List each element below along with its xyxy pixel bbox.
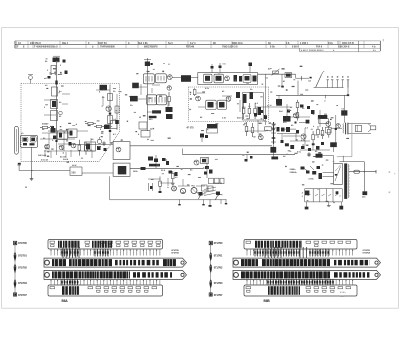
connector bar B6B-mid2 solder fill <box>241 271 245 278</box>
svg-text:4 09b: 4 09b <box>308 177 314 180</box>
svg-text:b0 4: b0 4 <box>72 164 77 167</box>
svg-text:4F 078: 4F 078 <box>186 127 194 130</box>
lamp LP1 <box>172 186 177 191</box>
IF stage parts <box>139 122 147 129</box>
transistor TS5 <box>167 75 172 80</box>
connector strip B6A-bottom outline <box>48 285 163 296</box>
pin ticks below B6A-top <box>50 250 52 256</box>
svg-text:071/707: 071/707 <box>18 293 27 297</box>
feedback marks <box>285 143 289 146</box>
bundle wires right <box>264 247 266 258</box>
transistor TS4 <box>116 147 121 152</box>
aerial socket <box>15 126 19 154</box>
svg-text:071/700: 071/700 <box>18 241 27 245</box>
capacitor C1 <box>53 58 60 63</box>
svg-text:F 4/900408400030b 8: F 4/900408400030b 8 <box>34 46 58 49</box>
tone stage upper transistor <box>194 160 199 165</box>
title block separators <box>27 41 29 48</box>
board tag 071/702 <box>14 265 16 273</box>
wire af drop <box>272 144 274 158</box>
connector strip B6B-bottom contacts <box>246 287 251 289</box>
wire af right <box>283 128 296 130</box>
wire mesh audio <box>255 106 290 108</box>
svg-text:09804b: 09804b <box>290 171 298 174</box>
resistor R22 (arrow) <box>273 71 279 74</box>
wire bottom rail <box>110 199 227 201</box>
voltage selector table <box>305 188 343 190</box>
agc cap <box>97 146 101 150</box>
af blobs row b <box>287 110 290 113</box>
capacitor C9 <box>105 125 110 130</box>
board tag 071/707 <box>14 293 17 296</box>
wire rf rail <box>74 143 113 145</box>
svg-text:0-2 4: 0-2 4 <box>190 42 196 45</box>
IF transformer S1 <box>143 74 154 84</box>
wire IF chain <box>146 58 148 131</box>
wire AGC bus <box>183 154 296 156</box>
junction dot <box>32 170 33 171</box>
switch wafer comb <box>327 79 329 81</box>
bar label dark <box>149 164 160 167</box>
mains transformer T3 <box>334 163 343 184</box>
IF transformer S2 <box>155 74 166 83</box>
board tag 071/701 <box>210 253 212 261</box>
coil L2 trimmer <box>51 111 58 121</box>
selector blobs <box>305 191 310 196</box>
svg-text:4 0b 44: 4 0b 44 <box>41 159 49 162</box>
emitter column <box>328 126 330 129</box>
crystal X1 <box>118 166 127 174</box>
cap C33 <box>330 142 337 147</box>
svg-text:071/705: 071/705 <box>171 250 179 252</box>
wire bus y95 <box>276 94 348 96</box>
ferrite unit marks <box>23 143 27 145</box>
lamination line <box>348 164 350 198</box>
svg-text:071/701: 071/701 <box>18 254 27 258</box>
resistor R5 <box>78 140 80 145</box>
connector bar B6B-mid1 mounting hole R <box>375 261 378 264</box>
svg-text:071/700: 071/700 <box>214 241 223 245</box>
resistor R20 <box>194 88 196 89</box>
svg-text:071/704: 071/704 <box>363 252 371 255</box>
osc coil A <box>204 74 213 83</box>
wire det drop <box>265 74 267 125</box>
svg-text:071/701: 071/701 <box>214 254 223 258</box>
branch x117 <box>116 100 118 130</box>
wire mesh tuner <box>44 99 56 101</box>
bias box <box>325 127 331 133</box>
svg-text:4004 1/5 B: 4004 1/5 B <box>342 42 354 45</box>
wire b9 vert <box>344 95 346 122</box>
board tag 071/703 <box>210 280 212 288</box>
volume pot box <box>70 167 82 175</box>
resistor R30 <box>172 171 174 173</box>
svg-text:1 208 1: 1 208 1 <box>300 42 309 45</box>
transistor TS11 <box>216 195 223 200</box>
svg-text:500: 500 <box>72 172 77 175</box>
ground drop b <box>328 202 330 206</box>
ferrite coil b <box>30 137 36 142</box>
mains switch S <box>316 74 322 87</box>
wire mesh rf <box>42 132 70 134</box>
board label chain line <box>14 245 16 294</box>
junction dot mains <box>364 171 365 172</box>
label strip (dark) <box>318 115 327 119</box>
transistor TS15 <box>301 134 306 139</box>
board tag 071/700 <box>209 241 212 244</box>
board tag 071/703 <box>14 280 16 288</box>
osc trimmer bank <box>243 75 251 83</box>
wire antenna feed <box>56 57 58 131</box>
feed branch x282 <box>281 74 283 86</box>
tap tick <box>325 95 327 98</box>
connector bar B6B-mid1 outline <box>233 258 381 267</box>
svg-text:3b4 1 8b: 3b4 1 8b <box>138 42 148 45</box>
lamp LP2 <box>180 188 185 193</box>
pin ticks below B6B-top <box>246 250 248 256</box>
bypass stubs <box>211 64 213 73</box>
connector bar B6A-mid1 solder fill <box>52 259 54 266</box>
speaker LS <box>371 126 376 130</box>
svg-text:F04 9: F04 9 <box>316 46 323 49</box>
wire mesh M <box>160 182 172 184</box>
transistor TS6 <box>167 86 171 90</box>
ground drop c <box>340 202 342 206</box>
svg-text:4b0 4: 4b0 4 <box>237 117 243 120</box>
connector strip B6B-top contacts <box>246 241 251 243</box>
svg-text:040 b94: 040 b94 <box>38 154 47 157</box>
svg-text:4 400 1 209090 8098 0: 4 400 1 209090 8098 0 <box>301 49 324 52</box>
terminal strip blob <box>271 157 278 160</box>
svg-text:040b: 040b <box>133 170 138 173</box>
svg-text:8 80 204 8: 8 80 204 8 <box>338 46 350 49</box>
connector strip B6B-bottom outline <box>244 285 357 296</box>
wire pot to box <box>82 172 113 174</box>
AM coil B <box>218 100 227 109</box>
terminal hook <box>18 165 20 171</box>
junction blobs x110 <box>109 113 111 115</box>
transistor TS10 <box>199 194 206 199</box>
pin ticks above B6A-bottom <box>50 280 52 285</box>
driver text <box>283 116 291 122</box>
detector diode blob <box>276 101 282 106</box>
connector bar B6A-mid2 mounting hole R <box>181 273 184 276</box>
connector strip B6B-top outline <box>244 240 357 250</box>
transistor TS7 <box>225 76 230 81</box>
ground G1 <box>31 171 33 177</box>
wire chain x110 <box>109 85 111 142</box>
svg-text:4 0 4 b: 4 0 4 b <box>340 291 346 294</box>
mid parts x170 <box>169 171 173 174</box>
wire spk bottom <box>348 132 371 134</box>
wire AF bus <box>130 145 272 147</box>
af res col a <box>246 122 248 126</box>
connector bar B6A-mid2 outline <box>44 270 187 279</box>
svg-text:8 0b: 8 0b <box>270 46 275 49</box>
board tag 071/700 <box>14 241 17 244</box>
decoupling cap C13 <box>132 83 139 89</box>
resistor R15 <box>168 92 170 96</box>
tuned coil L4 <box>68 129 77 138</box>
resistor R31 <box>159 177 161 182</box>
aerial inner pin <box>15 129 17 152</box>
wire spk top <box>348 123 371 125</box>
value label speckle <box>85 120 87 123</box>
transistor TS12 <box>258 135 263 140</box>
wire chain tail <box>56 131 58 155</box>
lamp LP3 <box>191 188 197 194</box>
transistor TS14 (output) <box>326 122 331 127</box>
B9 battery blob <box>341 110 347 115</box>
ferrite rod unit <box>20 135 37 147</box>
pilot cell B61 <box>363 172 365 192</box>
svg-text:4864 18 b: 4864 18 b <box>232 42 243 45</box>
diode cluster <box>301 167 305 170</box>
svg-text:704F9/90/890: 704F9/90/890 <box>100 46 115 49</box>
pin ticks above B6B-bottom <box>246 280 248 285</box>
marks below box2 <box>200 134 204 138</box>
osc coil B <box>214 74 224 83</box>
board tag 071/701 <box>14 253 16 261</box>
bundle wires left <box>62 247 64 258</box>
board tag 071/702 <box>210 265 212 273</box>
am inner box <box>243 93 264 121</box>
svg-text:98027895F8: 98027895F8 <box>144 46 158 49</box>
comb base line <box>314 87 344 89</box>
wire supply top <box>258 73 296 75</box>
tone stage box A <box>201 158 209 164</box>
svg-text:04 b: 04 b <box>328 42 333 45</box>
headphone jack box <box>355 125 361 131</box>
connector strip B6A-bottom contacts <box>50 287 55 289</box>
chain side part a <box>63 60 66 63</box>
transistor TS16 <box>336 124 340 128</box>
svg-text:0: 0 <box>302 196 303 198</box>
transistor TS20 <box>106 106 111 111</box>
transistor TS2 <box>59 145 64 150</box>
svg-text:071/702: 071/702 <box>18 266 27 270</box>
capacitor C12 <box>145 62 150 67</box>
stage box (ratio det) <box>113 142 130 160</box>
title block right extension <box>299 48 301 52</box>
transistor TS1 <box>45 144 50 149</box>
af wire y133 <box>277 133 296 135</box>
connector bar B6A-mid2 solder fill <box>52 271 54 278</box>
IF transformer S3 <box>147 95 157 105</box>
transistor TS3 <box>71 143 76 148</box>
wire chassis link <box>339 161 364 163</box>
transistor TS13 <box>293 113 298 118</box>
IF transformer S4 <box>157 95 167 105</box>
small parts in box <box>234 75 238 82</box>
padder trimmer <box>28 75 33 84</box>
connector bar B6B-mid1 mounting hole L <box>234 260 239 265</box>
RC filter box <box>285 73 292 78</box>
capacitor C4 <box>51 128 56 133</box>
tone stage parts col <box>206 158 208 179</box>
wire y122 <box>299 122 309 124</box>
title block frame <box>15 40 380 42</box>
af blobs row <box>254 113 257 117</box>
svg-text:0b4 4: 0b4 4 <box>63 158 69 161</box>
resistor R1 <box>51 66 56 74</box>
fuse F1 <box>354 170 360 173</box>
AM coil A <box>206 100 217 109</box>
trimmer C6 <box>97 139 101 143</box>
output transformer T2 <box>345 123 347 135</box>
board tag 071/707 <box>209 293 212 296</box>
coil L5 <box>85 142 96 151</box>
mains input parts <box>307 153 310 155</box>
resistor chain x296 <box>297 100 299 102</box>
rf stub ticks <box>44 150 46 157</box>
svg-text:4 b: 4 b <box>372 46 376 49</box>
resistor R6 <box>85 142 87 146</box>
ferrite coil a <box>22 137 28 142</box>
decoupling cap C14 <box>130 96 138 102</box>
svg-text:7092-1934 3 8: 7092-1934 3 8 <box>222 46 238 49</box>
wire right vert <box>335 115 337 147</box>
label strip box <box>319 119 329 124</box>
wire IF link <box>172 76 198 78</box>
cap C31 <box>306 120 310 124</box>
connector strip B6A-top outline <box>48 240 163 250</box>
faint marks right <box>389 171 391 173</box>
svg-text:040 05b 8: 040 05b 8 <box>30 42 41 45</box>
cap C16 <box>104 125 108 129</box>
connector bar B6B-mid2 mounting hole L <box>234 273 239 278</box>
wire unit drop <box>31 147 33 170</box>
rc pair right <box>277 127 280 132</box>
am parts b <box>243 103 245 108</box>
af res col b <box>317 126 319 129</box>
svg-text:071/703: 071/703 <box>214 281 223 285</box>
resistor chain R10 <box>85 123 88 125</box>
coil L7 <box>111 121 118 129</box>
oscillator coupling cap <box>100 85 108 91</box>
resistor R40 <box>312 131 314 135</box>
svg-text:071/703: 071/703 <box>18 281 27 285</box>
transistor TS8 <box>226 96 231 101</box>
tuned coil L3 <box>58 131 68 140</box>
capacitor C2 <box>52 87 58 96</box>
dashed enclosure (AM tuner unit) <box>189 87 269 121</box>
rf cap C17 <box>53 136 57 140</box>
coupling box <box>265 127 272 131</box>
resistor R11 <box>108 94 113 101</box>
stage box 2 <box>113 163 130 176</box>
label IF freq <box>152 110 161 113</box>
svg-text:B6A: B6A <box>62 299 69 303</box>
svg-text:071/702: 071/702 <box>214 266 223 270</box>
ground dots under rail <box>179 199 181 204</box>
volume bus bar <box>273 122 275 144</box>
rf top res row <box>40 127 42 129</box>
connector bar B6A-mid1 outline <box>44 258 187 267</box>
connector bar B6A-mid2 mounting hole L <box>45 273 50 278</box>
resistor R12 <box>108 116 113 124</box>
svg-text:071/704: 071/704 <box>171 252 179 255</box>
mixer/oscillator shield box <box>198 73 258 85</box>
dial lamp ticks <box>148 183 150 191</box>
agc tick parts <box>246 155 248 159</box>
svg-text:F07049: F07049 <box>186 46 195 49</box>
stub right <box>249 66 251 73</box>
svg-text:5a 0: 5a 0 <box>168 42 173 45</box>
neutralizing cap <box>181 75 191 82</box>
dropper resistor <box>276 99 282 104</box>
transformer winding bar <box>344 163 347 199</box>
wire av line left <box>19 170 70 172</box>
cap C15 <box>166 107 173 112</box>
wire to OPT <box>331 127 342 129</box>
thermistor hatch <box>204 187 216 190</box>
svg-text:B6B: B6B <box>264 299 271 303</box>
connector strip B6A-top contacts <box>50 241 55 243</box>
wire drop x298 <box>297 81 299 96</box>
svg-text:071/705: 071/705 <box>363 250 371 252</box>
node junction on dashed edge <box>55 81 57 85</box>
svg-text:071/707: 071/707 <box>214 293 223 297</box>
tone box pair <box>202 185 208 191</box>
connector bar B6A-mid1 mounting hole R <box>181 261 184 264</box>
switch unit S2 <box>148 157 153 161</box>
transistor TS9 <box>196 96 201 101</box>
board label chain line <box>210 245 212 294</box>
wire into transformer <box>323 172 334 174</box>
s2 extra parts <box>162 158 166 161</box>
svg-text:08a 4: 08a 4 <box>62 42 69 45</box>
connector bar B6B-mid2 outline <box>233 270 381 279</box>
gray routing wire <box>351 123 353 157</box>
ground drop a <box>306 202 308 207</box>
wire mesh if <box>133 86 147 88</box>
connector bar B6B-mid2 mounting hole R <box>375 273 378 276</box>
connector bar B6A-mid1 mounting hole L <box>45 260 50 265</box>
dashed enclosure (FM tuner unit) <box>21 84 120 162</box>
capacitor C7 <box>102 142 105 144</box>
af blobs row c <box>296 130 299 134</box>
comb right vert <box>347 80 349 96</box>
wire tone bus <box>130 168 203 170</box>
af junctions <box>272 128 274 130</box>
svg-text:m: m <box>25 187 27 189</box>
wire mains out <box>349 171 376 173</box>
coil L1 <box>51 100 58 109</box>
svg-text:4027 84: 4027 84 <box>98 42 107 45</box>
am parts a <box>236 92 240 98</box>
svg-text:8 89 4: 8 89 4 <box>292 46 299 49</box>
svg-text:0984b: 0984b <box>290 168 297 171</box>
pickup boxes <box>209 178 214 184</box>
connector bar B6B-mid1 solder fill <box>241 259 244 266</box>
electrolytic C30 <box>270 147 276 153</box>
